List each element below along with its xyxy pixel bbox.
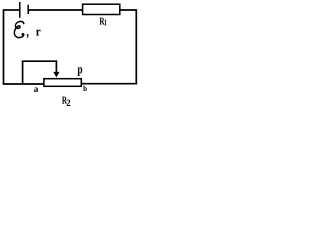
wire bottom-left from corner to node a bbox=[3, 83, 44, 85]
wire top-left from corner to battery bbox=[4, 9, 20, 11]
wire wiper branch up from bottom wire junction bbox=[22, 61, 24, 84]
label R1 letter R bbox=[100, 18, 105, 25]
label EMF script-E bbox=[14, 21, 23, 37]
wire right side bbox=[135, 9, 137, 84]
rheostat R2 box bbox=[44, 79, 81, 87]
node a label bbox=[34, 87, 38, 91]
wire left side bbox=[3, 9, 5, 84]
battery cell short plate (negative) bbox=[27, 5, 29, 14]
wire bottom-right from corner to node b bbox=[82, 83, 138, 85]
battery cell long plate (positive) bbox=[19, 2, 21, 18]
node b label bbox=[83, 86, 87, 91]
label R2 letter R bbox=[62, 97, 67, 104]
label r (internal resistance) bbox=[36, 30, 41, 36]
node p (wiper) label bbox=[77, 67, 82, 76]
wire wiper stem down to arrow bbox=[55, 60, 57, 73]
label comma after script-E bbox=[26, 34, 28, 38]
wiper arrowhead onto R2 bbox=[54, 72, 59, 76]
wire battery to R1 bbox=[29, 9, 83, 11]
label R1 subscript 1 bbox=[104, 19, 106, 25]
resistor R1 box bbox=[83, 4, 120, 14]
wire R1 to top-right corner bbox=[120, 9, 137, 11]
wire wiper branch horizontal bbox=[22, 60, 57, 62]
label R2 subscript 2 bbox=[67, 100, 71, 106]
